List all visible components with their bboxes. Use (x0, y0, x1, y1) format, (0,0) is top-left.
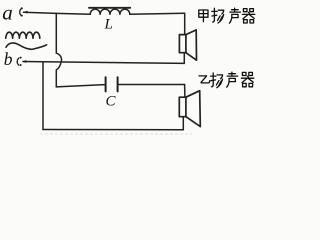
capacitor C right plate (117, 77, 119, 91)
svg-text:C: C (106, 94, 117, 110)
wire: b drop to bottom return (42, 62, 44, 130)
label char 甲 (speaker A) (199, 10, 208, 22)
label char 声 (row 2) (227, 72, 238, 87)
wire: speaker A feed drop (184, 13, 186, 34)
speaker A horn (186, 30, 197, 60)
speaker A driver box (179, 35, 186, 53)
scan artifact line at bottom (40, 133, 192, 135)
svg-text:L: L (104, 17, 113, 33)
inductor core bar (89, 7, 130, 9)
wire: to capacitor left (56, 85, 104, 87)
wire: a to inductor (24, 12, 91, 14)
wire: inductor to speaker A feed (130, 13, 185, 14)
source wave (6, 43, 47, 49)
wire: speaker A return to b (23, 62, 184, 64)
svg-text:a: a (2, 0, 13, 24)
label char 器 (row 1) (242, 9, 254, 23)
wire: speaker B feed drop (184, 85, 186, 98)
label char 乙 (speaker B) (199, 76, 210, 83)
junction vertical from node a wire, with hop over b wire (56, 13, 61, 87)
speaker B driver box (179, 97, 186, 117)
label char 声 (row 1) (229, 8, 240, 23)
label char 扬 (row 1) (212, 8, 224, 23)
label char 扬 (row 2) (211, 73, 223, 88)
wire: speaker A return drop (183, 53, 185, 64)
wire: speaker B return drop (182, 117, 184, 130)
capacitor C left plate (105, 77, 107, 91)
wire: capacitor to speaker B feed (119, 84, 185, 86)
speaker B horn (186, 91, 200, 127)
node a terminal symbol (20, 7, 28, 16)
inductor L coil (90, 9, 130, 14)
svg-text:b: b (4, 49, 13, 69)
source coil squiggle (6, 32, 40, 38)
wire: bottom return (43, 129, 183, 131)
node b terminal symbol (17, 57, 26, 66)
label char 器 (row 2) (241, 72, 253, 86)
